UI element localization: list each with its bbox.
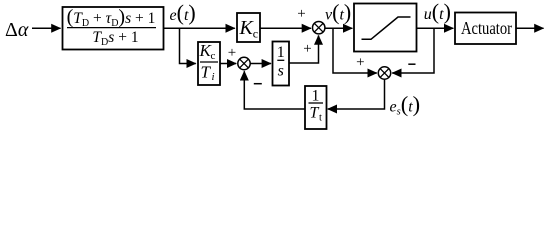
summing junction S3 xyxy=(378,67,390,79)
svg-text:c: c xyxy=(253,26,258,40)
wire saturation to Actuator xyxy=(417,27,454,29)
block saturation limiter xyxy=(354,4,417,52)
svg-text:t: t xyxy=(319,113,322,124)
svg-text:+: + xyxy=(356,55,364,71)
block 1/Tt anti-windup gain xyxy=(305,86,327,129)
wire G1 to Kc block xyxy=(164,27,235,29)
svg-text:T: T xyxy=(201,63,212,82)
wire 1/Tt output left and up into S2 bottom xyxy=(244,71,305,109)
svg-text:TDs + 1: TDs + 1 xyxy=(92,29,138,48)
wire branch down from e(t) to Kc/Ti block xyxy=(180,28,196,63)
wire Kc to summing junction S1 xyxy=(260,27,311,29)
svg-text:+: + xyxy=(228,45,236,61)
svg-text:s: s xyxy=(278,63,284,80)
svg-text:1: 1 xyxy=(277,44,285,61)
wire input arrow into G1 xyxy=(32,27,61,29)
block Kc proportional gain xyxy=(237,13,260,42)
wire output arrow from Actuator xyxy=(516,27,544,29)
wire Kc/Ti to S2 xyxy=(220,63,236,65)
wire S2 to 1/s block xyxy=(250,63,271,65)
sign minus at S2 bottom input xyxy=(254,83,262,85)
summing junction S2 xyxy=(238,57,250,69)
svg-text:1: 1 xyxy=(312,88,320,105)
wire S3 down and left into 1/Tt block, node es(t) xyxy=(328,79,385,109)
block 1/s integrator xyxy=(273,42,290,86)
svg-text:+: + xyxy=(303,41,311,57)
svg-text:c: c xyxy=(211,50,216,62)
svg-text:Actuator: Actuator xyxy=(461,18,512,38)
sign minus at S3 right input xyxy=(408,63,415,65)
block Kc/Ti integral gain xyxy=(198,41,220,85)
svg-text:i: i xyxy=(212,71,215,83)
wire branch down from v(t) to S3 left input xyxy=(333,28,377,73)
svg-text:(TD + τD)s + 1: (TD + τD)s + 1 xyxy=(67,6,156,29)
wire branch down from u(t) to S3 right input xyxy=(392,28,434,73)
wire 1/s output right and up into S1 bottom xyxy=(289,36,319,64)
svg-text:+: + xyxy=(297,6,305,22)
block G1 lead-lag (TD+tauD)s+1 / TDs+1 xyxy=(63,6,164,50)
svg-text:Δα: Δα xyxy=(5,19,29,41)
block Actuator xyxy=(455,13,516,45)
wire S1 to saturation block xyxy=(325,27,352,29)
summing junction S1 xyxy=(313,22,325,34)
